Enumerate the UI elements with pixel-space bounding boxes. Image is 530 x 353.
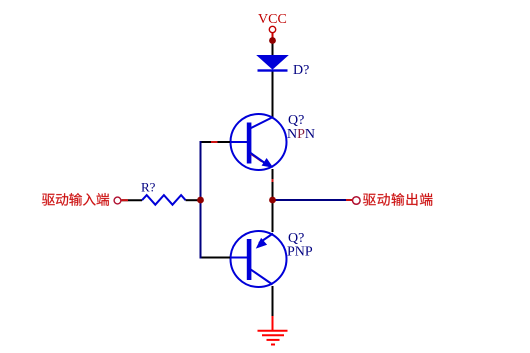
transistor Q2 PNP (230, 231, 287, 287)
transistor Q1 NPN (230, 114, 287, 170)
label output 驱动输出端 (363, 194, 376, 206)
wire resistor to node (186, 199, 201, 201)
power port VCC (258, 12, 287, 38)
wire input to resistor (122, 199, 143, 201)
resistor R? (142, 195, 186, 205)
wire output (273, 199, 353, 201)
wire PNP collector to ground (272, 286, 274, 317)
wire NPN emitter to node (272, 169, 274, 200)
port output terminal (353, 197, 361, 205)
svg-text:R?: R? (141, 180, 156, 195)
label input 驱动输入端 (42, 194, 55, 206)
diode D? (258, 56, 288, 72)
junction dot at VCC (269, 37, 276, 44)
junction node at base bus (197, 197, 204, 204)
wire NPN base (200, 141, 231, 143)
svg-text:NPN: NPN (287, 127, 315, 142)
svg-text:PNP: PNP (287, 245, 313, 260)
wire base bus vertical (200, 141, 202, 259)
wire PNP base (200, 257, 231, 259)
wire node to PNP emitter (272, 200, 274, 232)
port input terminal (114, 197, 121, 204)
wire diode to NPN collector (272, 70, 274, 117)
junction node at output (269, 197, 276, 204)
svg-text:VCC: VCC (258, 12, 287, 27)
svg-text:Q?: Q? (288, 113, 304, 128)
svg-text:D?: D? (293, 63, 309, 78)
wire VCC to diode (272, 40, 274, 56)
ground (258, 316, 288, 345)
